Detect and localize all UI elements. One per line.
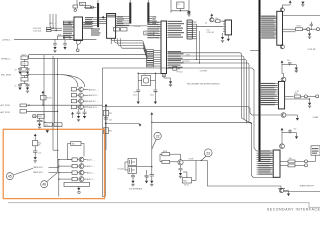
- wire: [284, 191, 320, 193]
- resistor network RN502: [129, 0, 131, 3]
- wire: [53, 149, 59, 151]
- svg-text:ALT PICK →: ALT PICK →: [1, 104, 13, 107]
- svg-text:C5x: C5x: [155, 92, 158, 94]
- capacitor C512: [121, 28, 128, 32]
- ic U502: [107, 14, 116, 39]
- mosfet Q517: [128, 167, 137, 174]
- capacitor C535: [78, 109, 80, 112]
- ground: [78, 187, 80, 188]
- pin labels U501 left: [63, 22, 73, 23]
- wire stub arrow: [106, 122, 141, 124]
- wire bus corners: [111, 38, 148, 57]
- power VCC arrow IC3: [281, 128, 284, 130]
- pin labels U505: [261, 16, 275, 17]
- bus line vertical thick: [259, 0, 261, 162]
- wire loop: [192, 160, 196, 180]
- ground: [295, 65, 297, 68]
- svg-text:AUD 4 →: AUD 4 →: [87, 178, 95, 181]
- terminal: [316, 95, 319, 98]
- svg-text:R5/1.x: R5/1.x: [45, 125, 50, 127]
- svg-text:Q5: Q5: [205, 23, 207, 25]
- capacitor C532: [170, 0, 172, 13]
- terminal: [307, 28, 310, 31]
- net label AUDIO R: [83, 94, 88, 96]
- pins U504 left: [223, 22, 225, 32]
- transistor Q512: [280, 45, 284, 49]
- svg-text:AUDIO L →: AUDIO L →: [89, 88, 99, 91]
- resistor R538: [162, 153, 170, 156]
- wire: [68, 144, 73, 160]
- svg-text:C5x: C5x: [287, 60, 290, 62]
- svg-text:C5x: C5x: [146, 177, 149, 179]
- svg-text:Y5x: Y5x: [143, 73, 146, 75]
- wire: [315, 155, 317, 160]
- resistor R534: [296, 28, 303, 31]
- net labels U501 block: [91, 28, 100, 29]
- wire: [250, 49, 259, 51]
- capacitor C545: [132, 174, 134, 176]
- ic U504: [225, 20, 231, 35]
- capacitor C5LP2: [21, 72, 28, 76]
- svg-text:AUDIO R →: AUDIO R →: [89, 94, 99, 97]
- ground: [309, 31, 311, 34]
- svg-text:OUTPUT: OUTPUT: [182, 61, 190, 63]
- capacitor C520: [104, 118, 108, 119]
- wire: [281, 5, 283, 8]
- svg-text:MIC SIGN →: MIC SIGN →: [1, 75, 14, 77]
- ground: [39, 122, 41, 124]
- svg-text:SUBWOOFER PP: SUBWOOFER PP: [300, 185, 315, 187]
- ic U507 body: [273, 150, 280, 177]
- resistor R531: [44, 123, 52, 127]
- wire: [151, 116, 153, 174]
- ground: [286, 114, 297, 116]
- svg-text:45: 45: [8, 175, 12, 179]
- wire: [282, 67, 284, 77]
- svg-text:R5x: R5x: [295, 93, 298, 95]
- svg-text:+5VMCC →: +5VMCC →: [2, 39, 14, 41]
- wire: [227, 35, 229, 39]
- transistor Q506: [71, 94, 76, 97]
- net label AUDIO out1: [84, 159, 87, 161]
- svg-text:C14 CD4: C14 CD4: [33, 30, 42, 32]
- svg-text:COMET: COMET: [313, 117, 319, 119]
- capacitor C511: [114, 28, 120, 32]
- diode D15: [47, 30, 52, 32]
- balloon 46: [41, 181, 48, 188]
- ground: [187, 11, 190, 14]
- svg-text:C5x2: C5x2: [133, 94, 137, 96]
- pins U507: [257, 151, 274, 174]
- wire: [303, 28, 307, 30]
- wire: [77, 41, 78, 49]
- transistor Q519: [279, 188, 283, 192]
- ground: [288, 191, 290, 194]
- wire: [280, 160, 288, 162]
- ic U501 body: [74, 17, 83, 41]
- svg-text:R5x: R5x: [216, 18, 219, 20]
- transistor Q502: [59, 165, 72, 167]
- capacitor C514: [288, 63, 291, 64]
- wire loop box lower: [64, 182, 89, 186]
- wire: [196, 24, 198, 59]
- wire: [36, 115, 38, 117]
- wire: [251, 123, 278, 177]
- svg-text:C52: C52: [109, 120, 112, 122]
- pins U502 left: [99, 17, 107, 23]
- ground: [309, 99, 311, 103]
- svg-text:C5x: C5x: [294, 129, 297, 131]
- pin labels U507: [258, 150, 270, 151]
- transistor Q513: [281, 77, 286, 82]
- wire: [24, 76, 26, 78]
- transistor Q501: [59, 159, 72, 161]
- wire: [281, 136, 283, 144]
- terminal: [305, 160, 308, 163]
- connector J502 ladder: [188, 11, 190, 13]
- svg-text:C5x: C5x: [38, 153, 41, 155]
- capacitor C536: [84, 109, 86, 112]
- power VCC arrow IC2: [281, 60, 284, 62]
- pin labels U503 right upper: [168, 21, 182, 22]
- pins U501 right: [82, 22, 85, 28]
- wire: [160, 154, 162, 162]
- capacitor C509: [70, 21, 74, 24]
- ground U503: [164, 77, 171, 82]
- svg-text:R534: R534: [297, 26, 301, 28]
- capacitor C521: [54, 39, 56, 43]
- pin labels RN503 right: [152, 16, 156, 17]
- resistor R517: [182, 178, 191, 183]
- ground IC1 top: [301, 2, 304, 5]
- power VCC arrow U502: [102, 16, 105, 18]
- wire: [167, 67, 173, 69]
- wire: [186, 172, 188, 178]
- ic U503 secondary microprocessor body: [161, 21, 167, 74]
- svg-text:46: 46: [42, 183, 46, 187]
- wire: [105, 107, 107, 197]
- resistor R528: [41, 95, 47, 100]
- pins U503 bottom: [161, 74, 163, 77]
- transistor Q514: [281, 113, 286, 118]
- resistor R530: [173, 66, 177, 70]
- capacitor C508: [63, 21, 69, 24]
- wire: [84, 6, 96, 8]
- highlight box orange: [3, 129, 104, 198]
- wire: [214, 20, 216, 22]
- resistor network RN503: [147, 0, 149, 3]
- pins U501 left: [72, 23, 75, 38]
- wire: [180, 154, 182, 160]
- resistor R533: [216, 20, 220, 23]
- resistor R525: [65, 36, 71, 40]
- wire horizontal lower: [102, 107, 281, 116]
- svg-text:23: 23: [206, 151, 210, 155]
- wire: [290, 64, 297, 66]
- resistor R537: [288, 164, 295, 167]
- wire: [309, 98, 310, 99]
- pin labels U503 right lower: [168, 51, 181, 52]
- svg-text:OUTPUT: OUTPUT: [200, 70, 208, 72]
- transistor Q511: [280, 8, 284, 12]
- pins RN501 left: [93, 17, 98, 25]
- pins U503 right lower: [167, 51, 168, 67]
- capacitor C523: [19, 67, 21, 70]
- wire: [58, 75, 85, 88]
- balloon 45: [6, 173, 13, 180]
- wire: [49, 14, 52, 28]
- svg-text:SPKMCC →: SPKMCC →: [1, 59, 13, 61]
- wire loop box upper: [71, 141, 81, 145]
- svg-text:R24: R24: [58, 34, 61, 36]
- svg-text:CONT MP: CONT MP: [308, 49, 317, 51]
- wire: [207, 160, 281, 189]
- capacitor C522: [64, 39, 66, 43]
- svg-text:R5x: R5x: [72, 144, 75, 146]
- svg-text:RTCLK: RTCLK: [177, 72, 184, 74]
- net label AUDIO L: [83, 88, 88, 90]
- wire: [34, 146, 36, 151]
- terminal: [78, 191, 80, 193]
- wire: [197, 26, 224, 28]
- svg-text:1K 1%: 1K 1%: [184, 184, 189, 186]
- wire vertical left long: [101, 68, 103, 197]
- wire: [42, 94, 44, 96]
- svg-text:22: 22: [156, 134, 160, 138]
- resistor R539: [162, 160, 170, 163]
- box TDA 24T: [144, 31, 154, 35]
- net label AUDIO out3: [84, 172, 87, 174]
- transistor Q505: [71, 88, 76, 91]
- capacitor C546: [146, 170, 148, 175]
- power VCC arrow R52x: [105, 104, 108, 106]
- terminal: [304, 95, 307, 98]
- power VCC arrow IC1: [289, 0, 292, 2]
- pins U502 right: [116, 17, 130, 26]
- svg-text:ALT PICK →: ALT PICK →: [1, 111, 13, 114]
- ground: [151, 176, 153, 181]
- svg-text:AUD 2 →: AUD 2 →: [87, 165, 95, 168]
- svg-text:LTV-03x: LTV-03x: [118, 169, 125, 171]
- wire: [27, 104, 103, 106]
- pins U506: [259, 84, 278, 105]
- wire: [51, 27, 62, 29]
- net label AUDIO out2: [84, 165, 87, 167]
- capacitor C528: [20, 110, 27, 113]
- net label AUDIO L2: [83, 100, 88, 102]
- svg-text:C5x2: C5x2: [150, 94, 154, 96]
- diode D14: [47, 27, 52, 29]
- terminal: [76, 49, 79, 52]
- power VCC arrow chain: [34, 134, 37, 136]
- svg-text:TAPE MCC: TAPE MCC: [33, 166, 44, 169]
- power VCC arrow: [210, 14, 213, 16]
- connector box right edge: [311, 146, 320, 155]
- svg-text:R517: R517: [183, 180, 187, 182]
- svg-text:MIC →: MIC →: [50, 23, 56, 25]
- capacitor C524: [27, 67, 29, 70]
- svg-text:TAPE MCC: TAPE MCC: [33, 171, 44, 174]
- resistor R522: [103, 128, 108, 134]
- resistor R527: [21, 78, 28, 82]
- transistor Q510: [210, 18, 214, 22]
- capacitor C525: [19, 83, 21, 86]
- transistor Q508: [71, 105, 76, 108]
- capacitor C544: [150, 175, 154, 176]
- net label AUDIO out4: [84, 178, 87, 180]
- terminal: [305, 164, 308, 167]
- power +5V arrow: [42, 91, 45, 93]
- wire SPK bus: [28, 57, 147, 59]
- ic U506 body: [278, 81, 284, 109]
- svg-text:DIS INTERFACE: DIS INTERFACE: [129, 187, 143, 190]
- capacitor C541: [33, 151, 37, 152]
- wire: [116, 25, 148, 27]
- wire: [283, 28, 296, 30]
- transistor Q504: [59, 178, 72, 180]
- wire: [285, 95, 294, 97]
- wire: [110, 38, 112, 44]
- pins J502 right: [192, 22, 196, 39]
- pins RN503 right: [149, 17, 152, 23]
- wire: [160, 161, 162, 163]
- resistor R532: [54, 123, 62, 127]
- resistor R540: [33, 140, 38, 145]
- pin labels U503 left upper: [147, 22, 159, 23]
- transistor Q515: [280, 144, 285, 149]
- transistor Q507: [71, 99, 76, 102]
- wire: [105, 108, 107, 150]
- ground: [34, 152, 36, 157]
- svg-text:C517: C517: [38, 116, 42, 118]
- ic U502 header: [107, 14, 116, 16]
- svg-text:AUD 1 →: AUD 1 →: [87, 159, 95, 162]
- capacitor C526: [27, 83, 29, 86]
- svg-text:R5x: R5x: [38, 142, 41, 144]
- resistor R535: [295, 95, 301, 98]
- pins U503 right upper: [167, 21, 168, 37]
- resistor network RN501: [97, 0, 99, 3]
- capacitor C515: [288, 131, 291, 132]
- capacitor C531: [153, 90, 157, 91]
- capacitor C530: [136, 90, 140, 91]
- power VCC arrow 22: [150, 112, 153, 114]
- svg-text:R5x: R5x: [289, 158, 292, 160]
- svg-text:R52: R52: [109, 131, 112, 133]
- svg-text:OTS OM: OTS OM: [207, 32, 214, 34]
- mosfet Q516: [128, 159, 137, 166]
- wire horizontal mid: [102, 68, 256, 151]
- svg-text:C5: C5: [15, 70, 17, 72]
- wire: [137, 166, 152, 168]
- ground: [296, 133, 298, 137]
- svg-text:SECONDARY MICROPROCESSOR: SECONDARY MICROPROCESSOR: [187, 83, 220, 86]
- pins U505: [259, 16, 277, 38]
- svg-text:AUD 3 →: AUD 3 →: [87, 172, 95, 175]
- svg-text:R5 0K: R5 0K: [47, 98, 53, 100]
- wire: [27, 110, 58, 112]
- resistor R536: [288, 160, 295, 163]
- svg-text:SECONDARY INTERFACE: SECONDARY INTERFACE: [267, 208, 320, 212]
- svg-text:R52: R52: [109, 113, 112, 115]
- wire: [14, 38, 58, 40]
- resistor stack RN504: [147, 50, 154, 52]
- transistor Q518: [178, 160, 183, 165]
- ground U504: [222, 33, 224, 37]
- wire: [183, 159, 207, 161]
- resistor R521: [103, 110, 108, 115]
- balloon 23: [204, 149, 212, 157]
- wire: [43, 55, 45, 123]
- resistor R526: [21, 62, 28, 66]
- capacitor C527: [20, 104, 27, 107]
- ic U510: [38, 114, 45, 118]
- capacitor C529: [37, 120, 43, 121]
- net label AUDIO R2: [83, 106, 88, 108]
- wire: [24, 60, 26, 62]
- wire: [28, 74, 58, 76]
- pin labels U502 right: [117, 16, 123, 17]
- wire vertical bus into array: [52, 56, 54, 150]
- ground: [46, 129, 49, 131]
- svg-text:AUDIO R →: AUDIO R →: [89, 106, 99, 109]
- pin labels U506: [261, 83, 275, 84]
- svg-text:C5: C5: [177, 4, 179, 6]
- svg-text:C5: C5: [15, 86, 17, 88]
- power +5 arrow: [71, 112, 74, 114]
- wire: [138, 72, 161, 74]
- svg-text:1 C5UP: 1 C5UP: [134, 26, 142, 28]
- svg-text:C5x: C5x: [134, 92, 137, 94]
- capacitor C534: [310, 24, 313, 25]
- svg-text:C54: C54: [80, 4, 83, 6]
- transistor Q503: [59, 172, 72, 174]
- svg-text:R538: R538: [163, 151, 167, 153]
- pins U503 left upper: [158, 22, 162, 38]
- pin labels RN501 left: [85, 17, 93, 18]
- node B: [33, 115, 36, 118]
- resistor R524: [58, 36, 64, 40]
- svg-text:AUDIO L →: AUDIO L →: [89, 100, 99, 103]
- pin labels U501 right: [83, 22, 92, 23]
- capacitor C547: [179, 169, 183, 170]
- balloon 22: [154, 132, 161, 139]
- connector J1 top-left input cluster: [76, 0, 78, 5]
- wire: [283, 15, 320, 17]
- wire: [34, 138, 36, 141]
- page border: [8, 203, 320, 208]
- wire: [171, 10, 189, 12]
- crystal Y501: [142, 75, 151, 85]
- wire 22KHz line: [152, 121, 252, 123]
- ic U505 body: [277, 11, 283, 45]
- wire bus upper: [168, 53, 252, 124]
